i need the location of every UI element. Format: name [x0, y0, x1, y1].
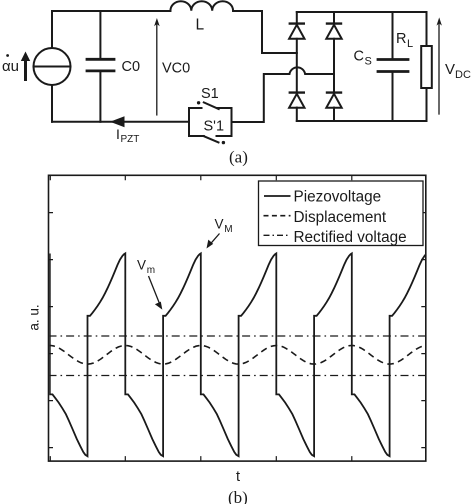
svg-text:L: L [196, 17, 205, 34]
svg-text:R: R [396, 31, 406, 47]
legend dash-dot line sample [264, 234, 291, 236]
legend box [259, 181, 424, 246]
svg-text:DC: DC [455, 69, 471, 81]
label V_M [215, 217, 233, 236]
rectified voltage lower dash-dot line [49, 375, 426, 377]
label CS [354, 49, 372, 68]
capacitor CS bottom lead [392, 73, 394, 121]
svg-text:Rectified voltage: Rectified voltage [294, 229, 407, 246]
bridge diode D1 (left top) [289, 12, 304, 92]
svg-text:I: I [116, 126, 120, 142]
label VDC [445, 61, 471, 81]
svg-text:V: V [445, 61, 455, 78]
svg-text:(b): (b) [228, 488, 248, 504]
bridge diode D3 (right top) [326, 12, 341, 92]
switch block right edge node [231, 108, 233, 136]
svg-text:m: m [147, 265, 155, 276]
capacitor CS plates [378, 60, 408, 72]
label RL [396, 31, 413, 50]
switch S'1 blade [204, 136, 219, 142]
y-axis ticks right [421, 213, 426, 448]
wire bridge bottom rail [297, 120, 427, 122]
switch S'1 contact dot [222, 141, 225, 144]
switch S'1 left lead [189, 135, 204, 137]
svg-text:αu: αu [2, 58, 19, 75]
arrow V_m [149, 276, 163, 310]
svg-text:(a): (a) [229, 148, 248, 167]
arrow VDC [437, 17, 442, 114]
wire bridge top rail [297, 11, 427, 13]
svg-text:a. u.: a. u. [27, 304, 42, 330]
current source chord [34, 66, 71, 68]
switch S1 contact dot [197, 101, 200, 104]
switch block left edge node [188, 108, 190, 136]
svg-text:Piezovoltage: Piezovoltage [294, 189, 382, 206]
current source It [34, 48, 71, 85]
svg-text:V: V [137, 258, 146, 273]
svg-text:S1: S1 [201, 86, 219, 102]
wire source bottom lead [51, 85, 53, 122]
bridge diode D2 (left bottom) [289, 93, 304, 121]
svg-text:VC0: VC0 [162, 61, 190, 77]
svg-text:PZT: PZT [121, 134, 140, 145]
y-axis ticks left [49, 213, 54, 448]
wire top rail left (source to inductor) [52, 11, 170, 48]
switch S1 blade [204, 102, 219, 109]
switch S1 left lead [189, 107, 202, 109]
svg-text:S'1: S'1 [204, 119, 225, 135]
switch S'1 right lead [217, 135, 232, 137]
arrow I_PZT [110, 116, 125, 127]
svg-text:Displacement: Displacement [294, 209, 387, 226]
wire inductor to bridge upper input [233, 11, 297, 53]
rectified voltage upper dash-dot line [49, 335, 426, 337]
capacitor CS top lead [392, 12, 394, 58]
arrow alpha-dot-u (displacement rate) [21, 52, 30, 82]
svg-text:M: M [224, 224, 232, 235]
switch S1 right lead [217, 107, 232, 109]
label V_m [137, 258, 155, 277]
arrow V_M [207, 234, 220, 249]
resistor RL [421, 12, 432, 121]
svg-text:V: V [215, 217, 224, 232]
bridge diode D4 (right bottom) [326, 93, 341, 121]
svg-text:S: S [365, 56, 372, 68]
wire switch block to bridge lower input (with hop over left branch) [232, 67, 335, 122]
legend dashed line sample [264, 215, 291, 217]
svg-text:C0: C0 [122, 59, 141, 75]
displacement dashed curve [49, 346, 424, 365]
label I_PZT [116, 126, 139, 145]
x-axis ticks bottom [50, 456, 352, 461]
capacitor C0 plates [87, 59, 114, 71]
capacitor C0 top lead [99, 11, 101, 58]
capacitor C0 bottom lead [99, 72, 101, 122]
svg-text:L: L [407, 38, 413, 50]
label alpha-dot-u [2, 54, 19, 75]
x-axis ticks top [50, 175, 352, 180]
piezovoltage solid curve [50, 253, 428, 456]
svg-text:t: t [236, 469, 240, 485]
plot frame [49, 175, 426, 461]
wire bottom rail left [52, 121, 189, 123]
inductor L [170, 1, 233, 11]
legend solid line sample [264, 195, 291, 197]
arrow VC0 [154, 18, 160, 115]
svg-text:C: C [354, 49, 364, 65]
